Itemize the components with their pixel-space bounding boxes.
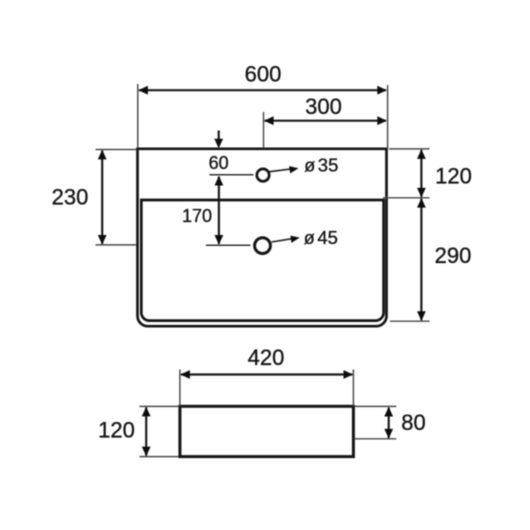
svg-text:420: 420 bbox=[248, 345, 285, 370]
svg-text:120: 120 bbox=[435, 164, 472, 189]
svg-text:35: 35 bbox=[318, 155, 339, 176]
svg-text:ø: ø bbox=[304, 156, 315, 176]
svg-text:60: 60 bbox=[209, 153, 229, 173]
svg-text:230: 230 bbox=[52, 185, 89, 210]
svg-text:170: 170 bbox=[182, 206, 212, 226]
svg-text:300: 300 bbox=[305, 94, 342, 119]
svg-text:45: 45 bbox=[317, 227, 338, 248]
svg-text:80: 80 bbox=[401, 410, 425, 435]
svg-text:290: 290 bbox=[435, 243, 472, 268]
svg-text:600: 600 bbox=[245, 62, 282, 87]
svg-text:ø: ø bbox=[304, 228, 315, 248]
svg-text:120: 120 bbox=[98, 418, 135, 443]
